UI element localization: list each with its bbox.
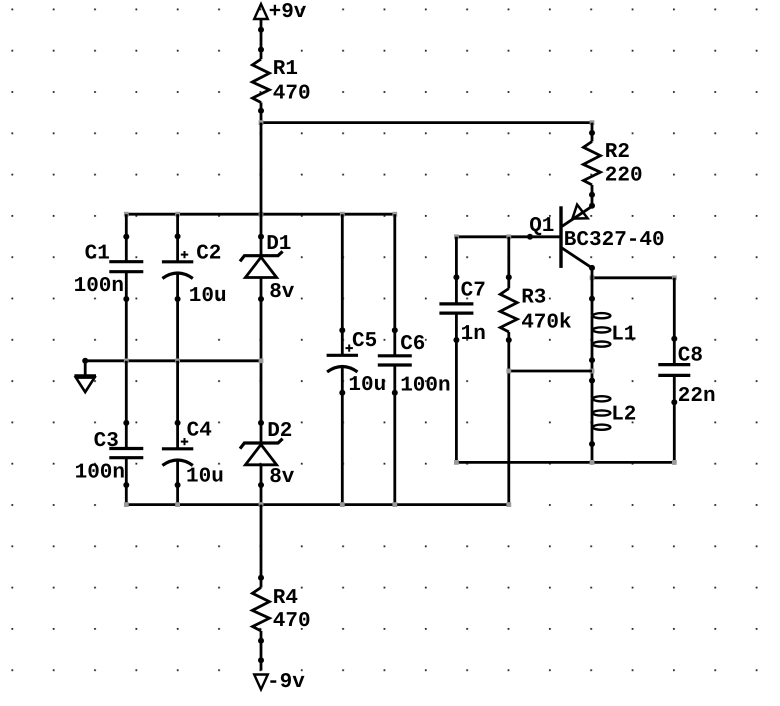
wire C7 top lead: [455, 237, 458, 304]
wire C4 bottom lead: [176, 461, 179, 505]
wire Q1 base to C7: [456, 235, 561, 238]
wire C7 bottom lead: [455, 313, 458, 462]
wire R3 bottom lead: [507, 332, 510, 505]
pin dot R3 top: [506, 274, 512, 280]
pin dot C3 top: [123, 420, 129, 426]
wire ground rail: [85, 359, 261, 362]
capacitor C8: [658, 363, 690, 366]
capacitor C3: [109, 447, 143, 450]
capacitor C6: [378, 354, 412, 357]
pin dot R1 bottom: [258, 108, 264, 114]
pin dot R4 top: [258, 575, 264, 581]
junction R1 corner: [259, 120, 264, 125]
svg-text:10u: 10u: [189, 285, 227, 308]
junction L1 L2 node: [590, 369, 595, 374]
resistor R3: [500, 289, 517, 332]
svg-text:L1: L1: [611, 323, 636, 346]
pin dot R1 top: [258, 47, 264, 53]
pin dot D1 top: [258, 234, 264, 240]
junction emitter rail C7: [454, 460, 459, 465]
svg-text:100n: 100n: [75, 461, 125, 484]
pin dot C7 top: [453, 274, 459, 280]
pin dot -9v: [258, 657, 264, 663]
wire collector to L1: [591, 268, 594, 316]
wire C1 bottom lead: [125, 272, 128, 361]
pin dot C1 bottom: [123, 296, 129, 302]
pin dot Q1 base: [527, 234, 533, 240]
pin dot C3 bottom: [123, 482, 129, 488]
pin dot D2 top: [258, 420, 264, 426]
wire R2 bottom lead: [591, 185, 594, 206]
junction upper rail center: [259, 212, 264, 217]
pin dot ground node: [82, 358, 88, 364]
pin dot +9v: [258, 27, 264, 33]
wire C3 top lead: [125, 361, 128, 449]
node +9v power symbol: [254, 4, 268, 19]
pin dot C8 top: [671, 336, 677, 342]
transistor Q1 emitter arrow: [572, 205, 587, 219]
junction ground rail C2: [175, 358, 180, 363]
svg-text:220: 220: [605, 164, 643, 187]
pin dot C4 top: [175, 420, 181, 426]
transistor Q1 emitter line: [562, 206, 592, 226]
resistor R2: [583, 142, 600, 185]
pin dot C6 top: [392, 327, 398, 333]
wire L2 bottom lead: [591, 399, 594, 463]
wire +9v to R1: [260, 19, 263, 59]
svg-text:8v: 8v: [269, 466, 295, 489]
pin dot R3 bottom: [506, 337, 512, 343]
wire main bottom rail: [126, 503, 509, 506]
transistor Q1 base bar: [559, 206, 562, 268]
wire upper rail C1 to C6: [126, 213, 395, 216]
junction upper rail C6: [392, 212, 397, 217]
pin dot L1 top: [589, 296, 595, 302]
wire R3 top lead: [507, 237, 510, 289]
ground symbol: [74, 374, 96, 377]
svg-text:470k: 470k: [521, 311, 571, 334]
resistor R1: [252, 59, 269, 102]
pin dot C2 top: [175, 233, 181, 239]
wire R2 top lead: [591, 123, 594, 142]
pin dot Q1 emitter: [589, 203, 595, 209]
wire ground stub: [84, 361, 87, 376]
svg-text:Q1: Q1: [529, 215, 554, 238]
pin dot C5 bottom: [339, 390, 345, 396]
junction upper rail C1: [124, 212, 129, 217]
capacitor C4 polarized: [162, 447, 193, 450]
svg-text:10u: 10u: [186, 465, 224, 488]
pin dot L2 top: [589, 378, 595, 384]
junction bottom rail R3: [506, 502, 511, 507]
pin dot R2 top: [589, 130, 595, 136]
junction R2 top corner: [590, 120, 595, 125]
wire R1 bottom lead: [260, 103, 263, 123]
svg-text:22n: 22n: [678, 385, 716, 408]
pin dot C6 bottom: [392, 390, 398, 396]
svg-text:10u: 10u: [348, 374, 386, 397]
wire C3 bottom lead: [125, 457, 128, 504]
wire L1 to L2 junction: [591, 316, 594, 399]
capacitor C1: [109, 260, 143, 263]
svg-text:L2: L2: [611, 404, 636, 427]
svg-text:-9v: -9v: [267, 671, 305, 694]
wire C2 top lead: [176, 214, 179, 262]
junction R3 node: [506, 369, 511, 374]
svg-text:C1: C1: [85, 243, 110, 266]
junction ground rail C1: [124, 358, 129, 363]
diode D2 zener: [240, 439, 283, 449]
svg-text:BC327-40: BC327-40: [564, 229, 665, 252]
wire C6 top lead: [393, 214, 396, 356]
junction upper rail C2: [175, 212, 180, 217]
junction emitter rail C8: [672, 460, 677, 465]
svg-text:100n: 100n: [400, 374, 450, 397]
pin dot C1 top: [123, 234, 129, 240]
junction bottom rail C6: [392, 502, 397, 507]
svg-text:C6: C6: [400, 333, 425, 356]
junction base rail left corner: [454, 234, 459, 239]
wire D2 top lead: [260, 443, 263, 445]
junction bottom rail C4: [175, 502, 180, 507]
pin dot C2 bottom: [175, 296, 181, 302]
junction C8 top corner: [672, 275, 677, 280]
pin dot L2 bottom: [589, 441, 595, 447]
wire C1 top lead: [125, 214, 128, 262]
svg-text:C8: C8: [678, 345, 703, 368]
wire emitter side bottom rail: [456, 461, 674, 464]
capacitor C7: [439, 302, 473, 305]
svg-text:100n: 100n: [74, 275, 124, 298]
pin dot L1 bottom: [589, 357, 595, 363]
pin dot C8 bottom: [671, 399, 677, 405]
wire C5 bottom lead: [341, 367, 344, 505]
svg-text:C2: C2: [196, 243, 221, 266]
junction collector corner: [590, 275, 595, 280]
node -9v power symbol: [254, 675, 268, 690]
svg-text:+9v: +9v: [269, 1, 307, 24]
wire C8 top lead: [673, 278, 676, 365]
diode D1 zener: [240, 251, 283, 261]
svg-text:R3: R3: [521, 287, 546, 310]
junction upper rail C5: [340, 212, 345, 217]
wire C4 top lead: [176, 361, 179, 449]
pin dot C4 bottom: [175, 482, 181, 488]
svg-text:D1: D1: [266, 233, 291, 256]
pin dot D2 bottom: [258, 482, 264, 488]
wire bottom rail to R4: [260, 505, 263, 588]
svg-text:R2: R2: [605, 141, 630, 164]
pin dot R2 bottom: [589, 192, 595, 198]
svg-text:C7: C7: [461, 280, 486, 303]
wire R3 to L1L2 junction: [509, 370, 592, 373]
svg-text:R1: R1: [273, 58, 298, 81]
wire C8 bottom lead: [673, 375, 676, 462]
wire R4 bottom lead: [260, 631, 263, 671]
svg-text:C4: C4: [187, 420, 212, 443]
wire C5 top lead: [341, 214, 344, 355]
svg-text:D2: D2: [267, 420, 292, 443]
pin dot Q1 collector: [589, 265, 595, 271]
pin dot C5 top: [339, 327, 345, 333]
inductor L1: [593, 313, 611, 318]
junction base rail R3: [506, 234, 511, 239]
svg-text:C5: C5: [352, 330, 377, 353]
svg-text:8v: 8v: [269, 281, 295, 304]
wire C6 bottom lead: [393, 365, 396, 505]
svg-text:470: 470: [273, 83, 311, 106]
transistor Q1 collector line: [562, 248, 592, 268]
capacitor C2 polarized: [162, 260, 193, 263]
junction ground rail center: [259, 358, 264, 363]
pin dot R4 bottom: [258, 638, 264, 644]
wire C2 bottom lead: [176, 274, 179, 361]
junction bottom rail C1: [124, 502, 129, 507]
svg-text:1n: 1n: [461, 323, 486, 346]
pin dot C7 bottom: [453, 337, 459, 343]
wire collector rail to C8: [592, 276, 674, 279]
svg-text:470: 470: [273, 610, 311, 633]
inductor L2: [593, 396, 611, 401]
wire D1 top lead: [260, 123, 263, 258]
svg-text:C3: C3: [94, 430, 119, 453]
pin dot D1 bottom: [258, 296, 264, 302]
wire D1 bottom lead: [260, 278, 263, 444]
svg-text:R4: R4: [273, 587, 298, 610]
junction bottom rail C5: [340, 502, 345, 507]
wire top rail R1 to R2: [261, 121, 592, 124]
junction bottom rail center: [259, 502, 264, 507]
capacitor C5 polarized: [327, 354, 358, 357]
junction emitter rail L2: [590, 460, 595, 465]
resistor R4: [252, 588, 269, 631]
wire D2 bottom lead: [260, 465, 263, 505]
